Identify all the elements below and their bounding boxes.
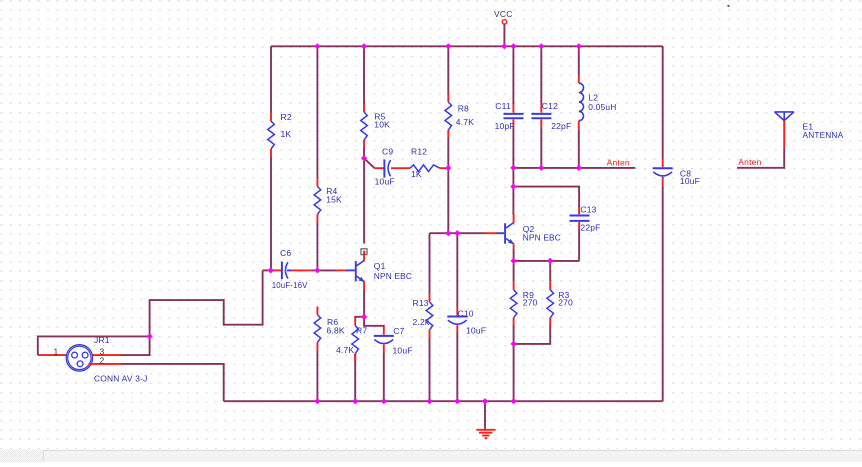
label R5 value 10K (374, 120, 390, 130)
svg-text:C7: C7 (393, 326, 404, 336)
label R3 value 270 (558, 297, 573, 307)
capacitor C11 (504, 104, 524, 128)
wire C8 bottom (662, 186, 664, 401)
capacitor C10 (447, 308, 467, 332)
label R6 (327, 317, 338, 327)
wire diagonal to C9 (364, 158, 375, 168)
label C13 value 22pF (580, 223, 600, 233)
wire JR1 pin3 step up (121, 270, 263, 355)
resistor R6 (314, 307, 321, 351)
svg-text:1K: 1K (281, 129, 292, 139)
wire R8 to Q2 base net (447, 138, 449, 233)
svg-text:0.05uH: 0.05uH (588, 102, 616, 112)
label L2 value 0.05uH (588, 102, 616, 112)
wire R6 to rail (316, 351, 318, 402)
wire R5 to node (363, 148, 365, 158)
svg-text:4.7K: 4.7K (336, 345, 354, 355)
svg-text:C12: C12 (542, 101, 558, 111)
label C13 (580, 204, 596, 214)
label R13 (413, 298, 429, 308)
wire Q2 emitter node (513, 249, 515, 261)
label C10 (458, 309, 474, 319)
label R6 value 6.8K (327, 325, 345, 335)
capacitor C8 (653, 159, 673, 187)
svg-text:2: 2 (100, 355, 105, 365)
svg-text:2.2k: 2.2k (413, 317, 430, 327)
scrollbar corner (0, 450, 43, 463)
label R13 value 2.2k (413, 317, 430, 327)
wire R5 branch top (363, 46, 365, 104)
label R2 value 1K (281, 129, 292, 139)
net label Anten (right) (738, 157, 761, 167)
power port VCC (502, 20, 506, 46)
svg-text:10uF: 10uF (375, 176, 395, 186)
svg-text:4.7K: 4.7K (456, 117, 474, 127)
wire R4 to base node (316, 222, 318, 270)
label Q2 type NPN EBC (523, 232, 561, 242)
label R2 (281, 112, 292, 122)
svg-text:Q1: Q1 (374, 261, 386, 271)
capacitor C12 (531, 104, 551, 128)
wire C10 to rail (456, 332, 458, 401)
wire emitter bus (514, 260, 580, 262)
wire ground stub (484, 401, 486, 429)
svg-text:1K: 1K (411, 169, 422, 179)
net label Anten (middle) (607, 157, 630, 167)
scrollbar track (43, 450, 862, 462)
svg-text:10uF: 10uF (393, 346, 413, 356)
label C6 (280, 248, 291, 258)
svg-text:22pF: 22pF (580, 223, 600, 233)
wire R3 bottom connect (514, 325, 551, 344)
wire C8 branch (662, 46, 664, 159)
wire L2 bottom to Anten net (578, 129, 580, 168)
capacitor C7 (374, 327, 394, 353)
label L2 (588, 92, 598, 102)
label C7 value 10uF (393, 346, 413, 356)
label VCC (494, 9, 513, 19)
label C8 value 10uF (680, 176, 700, 186)
svg-text:6.8K: 6.8K (327, 325, 345, 335)
svg-text:270: 270 (558, 297, 573, 307)
label JR1 pin 1 (54, 347, 59, 357)
label C12 (542, 101, 558, 111)
label R9 (523, 290, 534, 300)
svg-text:270: 270 (523, 297, 538, 307)
stray magenta dot (728, 5, 730, 7)
wire L2 branch top (578, 46, 580, 75)
label R12 (411, 146, 427, 156)
svg-text:JR1: JR1 (94, 335, 110, 345)
capacitor C9 (375, 160, 410, 178)
svg-text:C11: C11 (495, 101, 511, 111)
svg-text:10K: 10K (374, 120, 390, 130)
label JR1 pin 2 (100, 355, 105, 365)
connector JR1 (66, 345, 121, 371)
label R5 (374, 111, 385, 121)
wire R13 branch (429, 233, 431, 294)
wire Anten net horizontal (513, 167, 635, 169)
wire R9 to rail (513, 325, 515, 402)
label R9 value 270 (523, 297, 538, 307)
wire R13 to rail (429, 338, 431, 401)
svg-text:NPN EBC: NPN EBC (374, 271, 412, 281)
wire C6 left node (263, 269, 271, 271)
label E1 type ANTENNA (803, 130, 844, 140)
wire top VCC rail (271, 45, 663, 47)
resistor R8 (445, 94, 452, 138)
wire C11 down to Q2 collector (512, 128, 514, 216)
resistor R3 (547, 282, 554, 326)
label R7 value 4.7K (336, 345, 354, 355)
svg-text:C13: C13 (580, 204, 596, 214)
label C7 (393, 326, 404, 336)
wire JR1 pin1 loop (38, 336, 150, 355)
wire emitter to C7 (364, 317, 384, 327)
wire node to Q1 collector (363, 158, 365, 243)
svg-text:22pF: 22pF (551, 121, 571, 131)
svg-text:L2: L2 (588, 92, 598, 102)
wire R2 to base node (270, 157, 272, 270)
wire junctions (146, 43, 581, 404)
label C9 value 10uF (375, 176, 395, 186)
svg-text:CONN AV 3-J: CONN AV 3-J (94, 373, 148, 383)
ground (476, 430, 495, 438)
wire R9 top lead (513, 261, 515, 282)
svg-text:10uF-16V: 10uF-16V (272, 280, 308, 290)
wire Q1 emitter node (363, 290, 365, 317)
resistor R9 (510, 282, 517, 326)
svg-text:1: 1 (54, 347, 59, 357)
svg-text:ANTENNA: ANTENNA (803, 130, 844, 140)
svg-text:C6: C6 (280, 248, 291, 258)
label C11 (495, 101, 511, 111)
svg-text:Anten: Anten (607, 157, 630, 167)
label Q1 type NPN EBC (374, 271, 412, 281)
transistor Q1 (337, 249, 367, 290)
label Q1 (374, 261, 386, 271)
resistor R4 (314, 178, 321, 222)
svg-text:10uF: 10uF (680, 176, 700, 186)
label C12 value 22pF (551, 121, 571, 131)
label C11 value 10pF (495, 121, 515, 131)
resistor R13 (426, 294, 433, 338)
resistor R12 (410, 165, 447, 172)
resistor R5 (361, 104, 368, 148)
svg-text:C9: C9 (382, 146, 393, 156)
wire emitter to R7 (355, 317, 364, 318)
transistor Q2 (485, 215, 515, 249)
wire R8 branch top (447, 46, 449, 94)
inductor L2 (579, 75, 584, 129)
svg-text:C10: C10 (458, 309, 474, 319)
wire R2 branch top (270, 46, 272, 113)
label R4 value 15K (326, 195, 342, 205)
svg-text:10uF: 10uF (466, 326, 486, 336)
label C8 (680, 169, 691, 179)
svg-text:R13: R13 (413, 298, 429, 308)
svg-text:VCC: VCC (494, 9, 513, 19)
wire R4 branch top (316, 46, 318, 178)
svg-text:15K: 15K (326, 195, 342, 205)
label E1 (803, 122, 814, 132)
wire R7 to rail (354, 354, 356, 402)
wire antenna lead (737, 148, 784, 168)
label R8 value 4.7K (456, 117, 474, 127)
wire C12 bottom lead (540, 128, 542, 168)
label JR1 type CONN AV 3-J (94, 373, 148, 383)
svg-text:R7: R7 (356, 326, 367, 336)
wire Q2 base horizontal (430, 232, 485, 234)
wire Q1 base from C6 (310, 269, 337, 271)
wire JR1 pin2 to rail (121, 364, 224, 401)
label Q2 (523, 224, 535, 234)
svg-text:10pF: 10pF (495, 121, 515, 131)
label R12 value 1K (411, 169, 422, 179)
label C10 value 10uF (466, 326, 486, 336)
wire C12 branch top (540, 46, 542, 104)
label C6 value 10uF-16V (272, 280, 308, 290)
wire C13 bottom lead (578, 229, 580, 261)
wire C10 branch (456, 233, 458, 308)
label R3 (558, 290, 569, 300)
capacitor C6 (272, 262, 311, 280)
label R8 (458, 104, 469, 114)
capacitor C13 (570, 208, 590, 229)
svg-text:R12: R12 (411, 146, 427, 156)
wire C7 to rail (383, 353, 385, 401)
label C9 (382, 146, 393, 156)
resistor R7 (352, 318, 359, 362)
label JR1 (94, 335, 110, 345)
wire R3 top lead (549, 261, 551, 282)
label R4 (326, 186, 337, 196)
svg-text:Anten: Anten (738, 157, 761, 167)
wire bottom ground rail (224, 400, 663, 402)
wire C13 feed horizontal (513, 187, 579, 208)
resistor R2 (268, 113, 275, 157)
svg-text:R8: R8 (458, 104, 469, 114)
svg-text:NPN EBC: NPN EBC (523, 232, 561, 242)
antenna E1 (775, 112, 794, 148)
label JR1 pin 3 (100, 346, 105, 356)
label R7 (356, 326, 367, 336)
wire C11 branch top (512, 46, 514, 104)
svg-text:R2: R2 (281, 112, 292, 122)
